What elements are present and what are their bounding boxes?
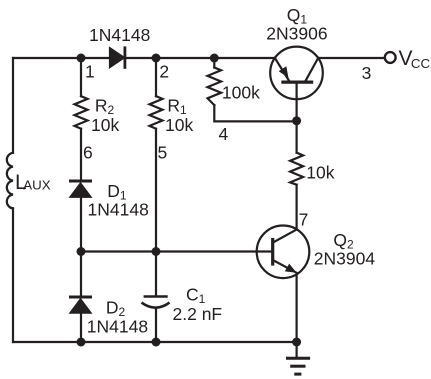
svg-text:7: 7: [299, 209, 309, 229]
svg-text:3: 3: [362, 63, 372, 83]
svg-text:10k: 10k: [91, 115, 119, 135]
svg-text:2.2 nF: 2.2 nF: [173, 304, 223, 324]
svg-text:1: 1: [85, 61, 95, 81]
svg-text:10k: 10k: [306, 162, 334, 182]
svg-text:2: 2: [159, 61, 169, 81]
svg-text:1N4148: 1N4148: [87, 317, 148, 337]
svg-text:CC: CC: [411, 56, 431, 71]
svg-text:2N3904: 2N3904: [314, 248, 376, 268]
svg-text:AUX: AUX: [23, 178, 50, 193]
svg-text:2N3906: 2N3906: [266, 24, 327, 44]
svg-text:1N4148: 1N4148: [89, 25, 150, 45]
svg-text:6: 6: [83, 142, 93, 162]
svg-text:100k: 100k: [222, 83, 260, 103]
svg-text:5: 5: [158, 142, 168, 162]
svg-text:10k: 10k: [165, 115, 193, 135]
svg-text:4: 4: [219, 124, 229, 144]
svg-text:1N4148: 1N4148: [88, 199, 149, 219]
